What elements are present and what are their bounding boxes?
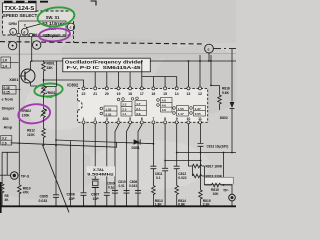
resistor R819 10K horizontal (205, 183, 233, 187)
node x211 junctions (210, 60, 212, 62)
svg-text:d: d (23, 30, 25, 34)
svg-text:X-TAL: X-TAL (93, 167, 105, 172)
wire pin5 down with jog (127, 124, 131, 193)
svg-text:16: 16 (151, 92, 155, 96)
switch S1 lever (27, 23, 43, 27)
capacitor C809 (112, 191, 118, 206)
svg-text:C813 10μ(16V): C813 10μ(16V) (207, 144, 229, 148)
svg-text:4.6: 4.6 (162, 103, 167, 107)
svg-text:D801: D801 (132, 146, 140, 150)
potentiometer VR802 (42, 108, 46, 120)
connector pin a (in box) (10, 28, 17, 35)
svg-text:3.2: 3.2 (2, 137, 7, 141)
green marker oval around SW. S1 (37, 5, 76, 28)
svg-text:2: 2 (94, 117, 96, 121)
svg-text:100K: 100K (22, 113, 31, 117)
resistor R816 5.6K (218, 85, 222, 110)
diode D802 (231, 49, 233, 102)
svg-text:10: 10 (186, 117, 190, 121)
horizontal wire lower (11, 142, 117, 147)
svg-text:10P: 10P (93, 197, 100, 201)
resistor R817 (193, 164, 205, 168)
svg-text:e from: e from (2, 97, 14, 101)
IC pin numbers bottom row (83, 117, 202, 121)
svg-text:1.8: 1.8 (2, 59, 7, 63)
crystal X-TAL label (87, 166, 116, 176)
svg-text:SPEED SELECT: SPEED SELECT (3, 13, 38, 18)
svg-text:1.1: 1.1 (122, 112, 127, 116)
svg-text:1.17: 1.17 (178, 112, 184, 116)
svg-text:33K: 33K (47, 66, 54, 70)
voltage table inside IC (pin 9) (173, 106, 189, 117)
node junction wiper rail / lower net (55, 145, 57, 147)
svg-text:1.37: 1.37 (195, 107, 201, 111)
connector pass-through circle on box bottom 1 (17, 33, 20, 36)
horizontal wire upper (D801 net) (56, 140, 153, 144)
svg-text:3: 3 (106, 117, 108, 121)
svg-text:1.55: 1.55 (106, 107, 112, 111)
diode D801 (134, 139, 140, 144)
wire pin3 down (106, 124, 108, 193)
wire pin10 down (188, 124, 192, 166)
svg-text:13: 13 (186, 92, 190, 96)
capacitor C806 (81, 193, 87, 206)
svg-text:TP-: TP- (223, 189, 230, 193)
resistor R810 (18, 185, 22, 206)
connector pin a (main board) (8, 41, 16, 49)
svg-text:9: 9 (176, 117, 178, 121)
resistor R801 (42, 61, 46, 74)
svg-text:12: 12 (198, 92, 202, 96)
capacitor C811 (150, 166, 156, 185)
svg-text:D802: D802 (220, 116, 228, 120)
svg-text:a: a (12, 30, 14, 34)
wire to IC pin 22 (44, 80, 84, 87)
green marker oval around VR801 (34, 82, 63, 97)
svg-text:21: 21 (93, 92, 97, 96)
node junction switch-d / y61 bus (31, 60, 33, 62)
top scan artifacts (4, 1, 48, 3)
capacitor C812 (174, 166, 180, 185)
wire pin8 down (164, 124, 166, 169)
wire VR801 wiper (47, 87, 57, 91)
wire pin6 down with jog (138, 124, 142, 193)
wire TP-3 node drop (2, 152, 19, 175)
transistor X801 (21, 69, 35, 83)
svg-text:5: 5 (129, 117, 131, 121)
svg-text:Amp: Amp (4, 124, 13, 129)
wiper rail x56 down (55, 61, 58, 195)
svg-text:2.02: 2.02 (106, 112, 112, 116)
voltage table inside IC (pins 3-4) (100, 106, 117, 116)
wire pin4 down with jog (115, 124, 119, 193)
switch module interior (3, 11, 74, 35)
voltage table inside IC (pin 5) (117, 98, 132, 116)
wire VR802 to R812 (43, 119, 45, 128)
transistor emitter wire (31, 82, 44, 86)
wire VR801 to VR802 (43, 96, 45, 108)
ground bus bottom (0, 205, 236, 207)
svg-text:F-V, P-D IC SM6415A-45: F-V, P-D IC SM6415A-45 (67, 65, 142, 70)
wire pin20 riser (106, 72, 108, 87)
svg-text:20: 20 (105, 92, 109, 96)
label box TXX-124-S (3, 3, 37, 12)
svg-text:47K: 47K (23, 191, 30, 195)
node junctions on D801 net (114, 142, 116, 144)
svg-text:8: 8 (164, 117, 166, 121)
connector pin d (main board) (33, 41, 41, 49)
test point TP right (231, 185, 233, 194)
svg-text:1.4: 1.4 (2, 64, 7, 68)
wire: switch pin to board edge (x19.3) (18, 37, 20, 185)
svg-text:14: 14 (175, 92, 179, 96)
voltage table inside IC (pin 6) (131, 97, 146, 116)
test point TP-3 (0, 174, 11, 176)
svg-text:SW. S1: SW. S1 (46, 15, 60, 20)
svg-text:R817 160K: R817 160K (206, 164, 223, 168)
svg-text:0.033: 0.033 (39, 199, 48, 203)
node: junction R801/pin22 (43, 79, 45, 81)
svg-text:4K: 4K (5, 198, 10, 202)
potentiometer VR801 (42, 85, 46, 96)
left rail (cut at edge) with resistor (0, 152, 4, 206)
wire pin1 down (83, 124, 85, 193)
svg-text:2.1: 2.1 (136, 107, 141, 111)
svg-text:IC802: IC802 (67, 83, 79, 88)
capacitor C805 (53, 195, 59, 206)
wire pin18 riser (129, 72, 131, 87)
svg-text:c: c (208, 47, 210, 51)
IC pin circles bottom row (pins 1-11) (82, 121, 202, 124)
voltage table inside IC (pin 8) (157, 98, 172, 113)
svg-text:7: 7 (152, 117, 154, 121)
svg-text:3.9: 3.9 (136, 112, 141, 116)
voltage table near pin a (1, 57, 11, 68)
faint scan fold line (0, 53, 236, 56)
wire pin21 riser (94, 72, 96, 87)
horizontal wire y160.5 (165, 160, 200, 162)
svg-text:2.0: 2.0 (122, 107, 127, 111)
wire pin11 down (200, 124, 202, 143)
svg-text:11: 11 (198, 117, 202, 121)
wire pin19 riser (118, 72, 120, 87)
wire x211 drop (211, 55, 220, 85)
scan mottling (0, 38, 245, 200)
svg-text:2.6: 2.6 (2, 142, 7, 146)
wire from pin c to right edge (214, 48, 237, 50)
wire pin2 to crystal (94, 124, 96, 176)
node junction upper net / pin7 wire (153, 143, 155, 145)
connector pin c (main board, right) (205, 44, 214, 53)
svg-text:0.1: 0.1 (156, 176, 161, 180)
svg-text:ORN: ORN (9, 22, 18, 26)
wire comb pins 17-14 to upper bus (142, 61, 177, 87)
svg-text:0.1μ: 0.1μ (108, 186, 114, 190)
node junction pin-c drop / y61 bus (208, 60, 210, 62)
IC802 oscillator/frequency divider (78, 88, 208, 122)
svg-text:0.15: 0.15 (4, 91, 10, 95)
svg-text:19: 19 (117, 92, 121, 96)
svg-text:18: 18 (128, 92, 132, 96)
svg-text:TXX-124-S: TXX-124-S (4, 6, 34, 12)
purple marker oval around VR802 (17, 102, 51, 125)
IC pin circles top row (pins 22-12) (82, 87, 202, 90)
svg-text:Shaper: Shaper (2, 107, 15, 111)
wire pin 13 riser (187, 61, 189, 87)
switch box S1 (19, 21, 66, 37)
svg-text:0.01: 0.01 (119, 184, 125, 188)
capacitor C813 (198, 144, 204, 191)
svg-text:5.6K: 5.6K (222, 91, 230, 95)
svg-text:TP-3: TP-3 (21, 174, 29, 178)
svg-text:0.55: 0.55 (195, 112, 201, 116)
IC label box (63, 58, 151, 72)
svg-text:0.18: 0.18 (4, 86, 10, 90)
capacitor C808 (135, 191, 141, 206)
svg-text:1: 1 (83, 117, 85, 121)
svg-text:110K: 110K (27, 133, 35, 137)
resistor R812 (42, 128, 46, 139)
voltage table left bottom (1, 136, 12, 146)
capacitor C810 (124, 191, 130, 206)
wire R812 to lower net (43, 139, 45, 146)
node junction wiper rail / upper net (55, 139, 57, 141)
wire pin 12 riser (199, 55, 201, 87)
plain wire x70.5 (70, 141, 72, 206)
svg-text:10P: 10P (69, 197, 76, 201)
IC pin numbers top row (82, 92, 202, 96)
wire pin7 down (152, 124, 154, 166)
svg-text:45 rpm: 45 rpm (45, 33, 59, 38)
svg-text:17: 17 (140, 92, 144, 96)
svg-text:15: 15 (163, 92, 167, 96)
purple marker oval around 45 rpm (38, 27, 70, 42)
left page border (0, 182, 2, 213)
svg-text:6: 6 (141, 117, 143, 121)
resistor R813 (152, 186, 156, 207)
dashed module box (switch board) (3, 11, 74, 43)
wire pin9 down (176, 124, 178, 166)
resistor R818 (193, 174, 205, 178)
svg-text:10K: 10K (213, 192, 220, 196)
wire pin c down (208, 53, 210, 61)
svg-text:4.6: 4.6 (162, 108, 167, 112)
svg-text:1.7: 1.7 (136, 102, 141, 106)
wire R801 to VR801 (43, 73, 45, 85)
horizontal wire y152.5 (177, 152, 236, 154)
voltage table near X801 (3, 86, 17, 95)
svg-text:4.6: 4.6 (162, 99, 167, 103)
white label box bottom right (205, 177, 234, 184)
capacitor on pin8 wire (162, 168, 168, 171)
connector pass-through circle on box bottom 2 (29, 33, 32, 36)
node junction left rail / lower net (19, 142, 21, 144)
svg-text:1.55: 1.55 (178, 107, 184, 111)
svg-text:801: 801 (3, 117, 9, 121)
svg-text:9.504MHz: 9.504MHz (87, 173, 114, 177)
svg-text:0.033: 0.033 (129, 184, 137, 188)
svg-text:X801: X801 (9, 77, 19, 82)
connector pin d (in box) (21, 28, 28, 35)
wire pin8 to bus (164, 171, 166, 206)
transistor collector wire (30, 61, 32, 70)
svg-text:0.022: 0.022 (178, 176, 186, 180)
resistor R814 (175, 186, 179, 207)
voltage table inside IC (pin 11) (190, 106, 206, 117)
crystal element (92, 179, 99, 187)
capacitor C807 (104, 193, 110, 206)
long dashed board boundary line (0, 42, 204, 44)
long diagonal wire (43, 145, 70, 213)
wire: switch pin to board edge (x31.7) (31, 37, 33, 62)
wire x223.5 drop (223, 153, 225, 186)
svg-text:c: c (70, 25, 72, 29)
svg-text:22: 22 (82, 92, 86, 96)
connector pin c (box edge) (66, 26, 67, 28)
svg-text:4: 4 (118, 117, 120, 121)
wire y61 horizontal (32, 60, 236, 62)
scan background (0, 0, 236, 213)
svg-text:2.2: 2.2 (122, 103, 127, 107)
resistor R815 (199, 190, 203, 206)
